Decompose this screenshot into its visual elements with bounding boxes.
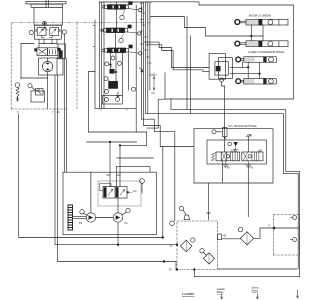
svg-text:CYL. BLOCK/OPTIONAL: CYL. BLOCK/OPTIONAL: [228, 124, 258, 128]
priority valve dashed box: [98, 181, 141, 206]
svg-text:13: 13: [57, 110, 60, 114]
svg-text:P1: P1: [125, 221, 129, 225]
port circle top: [43, 21, 47, 25]
wire from left assembly top: [21, 77, 48, 79]
solenoid feed wires: [222, 82, 225, 152]
lines from motor down: [47, 75, 49, 109]
central check valve: [228, 142, 238, 152]
crossover relief box: [35, 25, 62, 39]
svg-text:T5: T5: [169, 268, 173, 272]
CF / EF risers: [109, 142, 111, 187]
svg-text:BOOM CYLINDER: BOOM CYLINDER: [249, 13, 271, 17]
drains down: [221, 161, 223, 183]
port circle left: [29, 30, 33, 34]
top wire T1: [152, 2, 200, 5]
dashes right of stack: [149, 74, 157, 76]
left drop wire from valve: [21, 44, 34, 79]
vent T: [207, 213, 211, 220]
circled 2 below valve2: [119, 38, 123, 42]
vent stem to tank: [208, 183, 210, 213]
clamp cylinder 2: [236, 79, 276, 85]
boom interconnect verticals: [250, 25, 252, 41]
bus tick specks: [140, 4, 151, 64]
motor box: [39, 58, 64, 75]
enclosure solid box: [194, 129, 273, 183]
svg-text:LG: LG: [133, 189, 136, 193]
svg-text:Down: Down: [252, 289, 259, 293]
svg-text:S1: S1: [170, 243, 174, 247]
accumulator / pressure element far left: [15, 83, 20, 101]
svg-text:CF: CF: [106, 173, 110, 177]
suction strainer hatched bar: [68, 205, 73, 230]
pilot box right of valve: [58, 44, 66, 59]
2-position brake valve: [37, 48, 60, 56]
svg-text:3: 3: [126, 108, 128, 112]
H2 port: [218, 234, 222, 240]
boom cylinder 2: [235, 41, 288, 47]
feed cap for Tb line: [246, 136, 249, 138]
port circle right: [62, 30, 66, 34]
motor housing upper box: [34, 7, 63, 25]
dimension arrow right of bus: [153, 77, 155, 91]
svg-text:H2: H2: [223, 233, 227, 237]
svg-text:CLAMP CYLINDER/OPTIONAL: CLAMP CYLINDER/OPTIONAL: [248, 50, 285, 54]
svg-text:Z4P: Z4P: [247, 133, 252, 137]
filter 1: [180, 238, 195, 252]
drain T symbols: [223, 161, 228, 168]
staircase A to boom cylinders: [150, 17, 263, 37]
solenoid valve B: [242, 148, 263, 161]
svg-text:Loader: Loader: [182, 291, 195, 296]
hang wires: [186, 17, 188, 110]
priority valve: [100, 184, 128, 199]
filter 2: [200, 249, 215, 264]
clamp cylinder 1: [236, 57, 276, 63]
clamp staircases: [144, 42, 209, 67]
circled num top left of tank: [170, 221, 175, 226]
junction dots boom: [251, 35, 253, 37]
P1 pump: [113, 213, 122, 222]
solenoid valve A: [212, 148, 240, 161]
axle anchor bars: [26, 0, 66, 7]
svg-text:6: 6: [17, 110, 19, 114]
small cluster below valve3: [104, 53, 143, 97]
clamp interconnect lines: [247, 62, 249, 78]
spool valve 3: [102, 45, 142, 55]
spool valve 2: [101, 25, 141, 35]
lines relief to valve: [38, 39, 40, 48]
svg-text:12B: 12B: [258, 148, 263, 152]
port ticks left of stack: [93, 26, 95, 47]
svg-text:N1: N1: [152, 91, 156, 95]
svg-text:N1: N1: [152, 73, 156, 77]
svg-text:P2: P2: [79, 221, 83, 225]
inner solid box: [207, 140, 267, 164]
pump connections: [73, 216, 87, 218]
svg-text:6: 6: [269, 224, 271, 228]
lower check valve component: [102, 96, 122, 105]
brake release valve cluster: [28, 84, 45, 102]
tank bottom out line: [194, 270, 299, 277]
svg-text:EF: EF: [118, 173, 122, 177]
P2 pump: [86, 213, 95, 222]
circled 1 below valve1: [120, 15, 124, 19]
breather: [179, 206, 183, 210]
stack frame: [95, 5, 136, 109]
svg-text:Raise: Raise: [217, 290, 224, 294]
svg-text:7: 7: [52, 110, 54, 114]
svg-text:Tb: Tb: [250, 166, 254, 170]
section dash-dot line: [11, 22, 150, 24]
boom cylinder 1: [235, 19, 288, 25]
svg-text:Ta: Ta: [227, 166, 230, 170]
spool valve 1: [102, 2, 142, 12]
